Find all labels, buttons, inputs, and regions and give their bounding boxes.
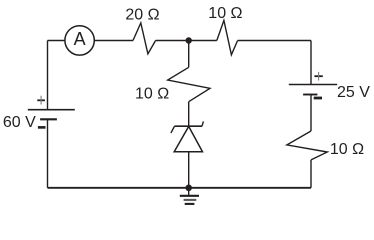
wire: bottom horizontal (48, 187, 312, 189)
wire: right resistor to bottom-right corner (310, 160, 312, 188)
battery V2 minus sign (314, 97, 322, 100)
battery V1 minus sign (38, 126, 46, 129)
svg-text:10 Ω: 10 Ω (208, 5, 242, 22)
svg-text:60 V: 60 V (3, 114, 36, 131)
svg-text:20 Ω: 20 Ω (125, 6, 159, 23)
ground symbol (180, 188, 199, 204)
wire: middle resistor to zener diode (188, 102, 190, 127)
battery V1 60V short plate (-) (40, 118, 57, 120)
wire: 10 ohm resistor to top-right corner (238, 40, 311, 42)
wire: node down to middle 10 ohm resistor (188, 41, 190, 68)
svg-text:10 Ω: 10 Ω (135, 85, 169, 102)
wire: 20 ohm resistor to node (156, 40, 189, 42)
resistor R1 20ohm zigzag (133, 23, 156, 54)
wire: zener diode to bottom node (188, 152, 190, 188)
battery V2 25V long plate (+) (289, 84, 337, 86)
battery V1 60V long plate (+) (28, 109, 75, 111)
wire: 25V battery to 10 ohm right resistor (310, 95, 312, 132)
wire: left vertical upper (corner to 60V battery top plate) (47, 41, 49, 110)
battery V2 plus sign (314, 72, 322, 81)
resistor R2 10ohm top zigzag (217, 20, 238, 54)
wire: ammeter to 20 ohm resistor (94, 40, 133, 42)
wire: left vertical lower (60V battery bottom plate to bottom-left corner) (47, 119, 49, 188)
wire: node to 10 ohm top resistor (189, 40, 217, 42)
svg-text:10 Ω: 10 Ω (330, 141, 364, 158)
zener diode D1 (171, 121, 204, 151)
battery V1 plus sign (37, 96, 45, 105)
battery V2 25V short plate (-) (303, 94, 317, 96)
node: bottom junction dot (185, 185, 192, 192)
ammeter A1 circle (65, 26, 94, 55)
node: top junction dot (186, 37, 192, 43)
resistor R4 10ohm middle zigzag (168, 67, 210, 101)
wire: top-left horizontal from left corner to ammeter (48, 40, 65, 42)
svg-text:25 V: 25 V (337, 84, 370, 101)
resistor R3 10ohm right zigzag (287, 131, 327, 160)
svg-text:A: A (74, 29, 86, 49)
wire: right vertical upper (corner to 25V battery) (310, 41, 312, 85)
